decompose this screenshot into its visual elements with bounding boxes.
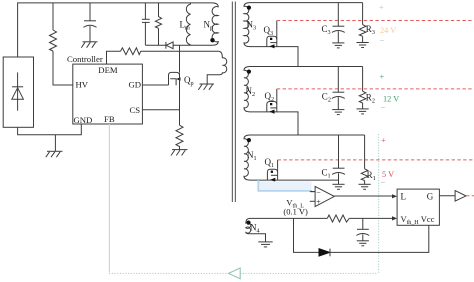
- ground CS resistor: [171, 150, 188, 156]
- dot N3 polarity: [247, 6, 251, 10]
- svg-text:FB: FB: [104, 114, 115, 124]
- svg-text:R3: R3: [366, 24, 375, 36]
- svg-text:12 V: 12 V: [383, 95, 399, 104]
- ground aux winding: [198, 84, 214, 90]
- ground primary main: [46, 135, 63, 158]
- transistor Qp: [169, 72, 180, 85]
- svg-text:−: −: [381, 104, 386, 113]
- inductor Lm: [186, 3, 190, 45]
- svg-text:Lm: Lm: [180, 20, 191, 32]
- svg-text:GND: GND: [74, 115, 93, 125]
- wire Q3 drain: [276, 21, 278, 37]
- ground VthH cap: [357, 241, 369, 246]
- svg-text:Np: Np: [204, 20, 214, 32]
- wire Vcc row: [294, 218, 319, 252]
- wire N4 to VthH row: [250, 217, 327, 219]
- ground R3: [357, 43, 369, 48]
- resistor R2: [359, 67, 366, 109]
- svg-text:+: +: [379, 3, 384, 12]
- svg-text:CS: CS: [130, 105, 141, 115]
- ground N4: [258, 242, 272, 247]
- svg-text:Q1: Q1: [265, 157, 275, 169]
- svg-text:Vcc: Vcc: [421, 214, 435, 224]
- wire snubber bottom: [145, 44, 165, 46]
- winding Naux: [207, 51, 227, 84]
- wire diode to Vcc pin: [330, 225, 429, 252]
- svg-text:Vth_H: Vth_H: [401, 214, 420, 226]
- wire GD to gate: [142, 84, 168, 86]
- wire stage3 bottom: [250, 47, 298, 67]
- dot N1 polarity: [247, 138, 251, 142]
- diode clamp: [166, 42, 173, 49]
- resistor CS: [176, 125, 183, 149]
- wire gate red dashed: [466, 195, 474, 197]
- winding Np: [212, 3, 218, 45]
- wire DEM stub: [107, 51, 121, 64]
- svg-text:Qp: Qp: [184, 75, 194, 87]
- resistor DEM: [121, 48, 141, 55]
- wire bridge bottom to gnd rail: [18, 124, 82, 135]
- block SR controller: [397, 189, 439, 225]
- resistor R1: [361, 135, 368, 184]
- FB feedback line teal: [108, 124, 110, 272]
- amplifier gate driver: [455, 191, 466, 202]
- svg-text:−: −: [381, 179, 386, 188]
- ground input cap: [81, 42, 97, 48]
- wire DEM to aux winding: [141, 50, 219, 52]
- controller U1 box: [73, 64, 143, 124]
- svg-text:+: +: [381, 136, 386, 145]
- svg-text:R2: R2: [366, 92, 375, 104]
- bridge rectifier box: [3, 57, 33, 127]
- ground R1: [359, 184, 371, 189]
- ground C3: [332, 43, 344, 48]
- diode D bridge: [12, 72, 24, 110]
- wire sense 12V red dashed: [277, 88, 474, 90]
- wire rail 24V top: [250, 2, 363, 4]
- dot N4 polarity: [246, 221, 250, 225]
- amplifier FB buffer: [229, 268, 241, 279]
- wire Q2 drain: [276, 89, 278, 102]
- snubber resistor: [155, 3, 161, 45]
- svg-text:C2: C2: [322, 92, 331, 104]
- dot Np polarity: [210, 38, 214, 42]
- wire sense 24V red dashed: [277, 20, 474, 22]
- svg-text:R1: R1: [367, 170, 376, 182]
- svg-text:N2: N2: [246, 86, 256, 98]
- svg-text:L: L: [401, 192, 407, 202]
- svg-text:+: +: [316, 198, 321, 207]
- dot N2 polarity: [247, 70, 251, 74]
- svg-text:−: −: [380, 37, 385, 46]
- ground C2: [332, 110, 344, 115]
- capacitor C2: [332, 67, 345, 110]
- svg-text:N4: N4: [250, 223, 260, 235]
- winding N2: [244, 67, 250, 112]
- svg-text:−: −: [316, 188, 321, 197]
- transformer core: [231, 2, 233, 203]
- wire stage1 bottom: [250, 179, 339, 181]
- capacitor input bulk: [84, 3, 97, 42]
- wire CS: [142, 109, 179, 111]
- ground C1: [332, 184, 344, 189]
- svg-text:24 V: 24 V: [380, 26, 396, 35]
- snubber cap: [142, 3, 150, 45]
- svg-text:Q3: Q3: [264, 25, 274, 37]
- transistor Q3: [267, 36, 277, 46]
- capacitor C3: [332, 3, 345, 43]
- wire comparator out to L: [334, 195, 393, 197]
- wire top rail primary: [18, 3, 212, 57]
- svg-text:C1: C1: [322, 168, 331, 180]
- svg-text:HV: HV: [76, 80, 89, 90]
- op-amp comparator: [310, 186, 335, 206]
- winding N1: [244, 135, 250, 180]
- capacitor C1: [332, 135, 345, 184]
- wire Q1 source sense blue: [259, 181, 312, 190]
- capacitor VthH filter: [356, 218, 369, 240]
- svg-text:+: +: [380, 73, 385, 82]
- svg-text:G: G: [427, 192, 434, 202]
- svg-text:N1: N1: [247, 150, 257, 162]
- ground R2: [357, 109, 369, 114]
- wire switch node horizontal: [173, 44, 212, 46]
- wire rail 5V top: [250, 134, 365, 136]
- wire source/CS node: [179, 72, 181, 125]
- svg-text:DEM: DEM: [98, 65, 118, 75]
- winding N4: [246, 218, 266, 242]
- svg-text:C3: C3: [322, 24, 331, 36]
- svg-text:GD: GD: [129, 80, 142, 90]
- svg-text:Controller: Controller: [67, 54, 103, 64]
- winding N3: [244, 3, 250, 47]
- wire Q1 drain: [277, 160, 279, 169]
- wire stage2 bottom: [250, 112, 298, 135]
- svg-text:(0.1 V): (0.1 V): [283, 207, 308, 217]
- wire to VthH pin: [349, 217, 393, 219]
- transistor Q2: [267, 102, 277, 112]
- transistor Q1: [267, 169, 277, 180]
- resistor startup (HV): [50, 3, 73, 85]
- wire drain vertical Qp: [179, 45, 181, 72]
- resistor VthH: [327, 215, 349, 222]
- wire rail 12V top: [250, 66, 363, 68]
- diode Vcc: [319, 249, 330, 257]
- resistor R3: [359, 3, 366, 43]
- wire sense 5V red dashed: [278, 159, 474, 161]
- wire G output: [439, 195, 455, 197]
